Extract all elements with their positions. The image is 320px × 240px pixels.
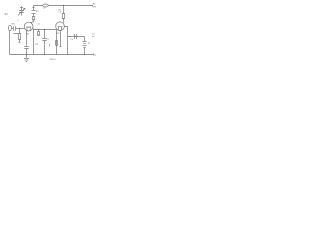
svg-text:TR1: TR1 [26, 33, 30, 35]
svg-text:RW-5: RW-5 [50, 59, 57, 61]
svg-text:B1: B1 [88, 43, 90, 45]
svg-text:TR2: TR2 [56, 33, 60, 35]
svg-text:R3: R3 [36, 44, 38, 46]
svg-text:C3: C3 [58, 12, 60, 14]
svg-text:C4: C4 [71, 39, 73, 41]
svg-text:L1: L1 [43, 7, 45, 9]
svg-text:R2: R2 [36, 11, 38, 13]
svg-text:C2: C2 [47, 39, 49, 41]
svg-text:C2: C2 [38, 23, 40, 25]
svg-text:a: a [17, 20, 18, 22]
